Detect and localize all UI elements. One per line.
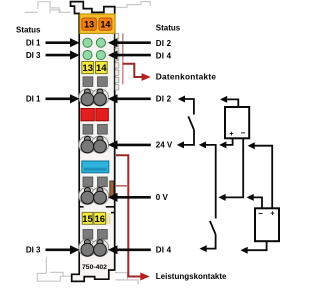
svg-text:DI 1: DI 1 [26,39,41,48]
svg-text:750-402: 750-402 [82,264,107,271]
svg-text:DI 2: DI 2 [156,95,172,104]
svg-text:DI 1: DI 1 [26,95,41,104]
svg-text:+: + [270,210,274,217]
svg-text:DI 4: DI 4 [156,246,172,255]
svg-text:Status: Status [16,25,41,34]
svg-text:14: 14 [100,20,110,30]
svg-text:−: − [258,209,263,218]
svg-text:+: + [229,131,233,138]
svg-text:13: 13 [84,20,94,30]
svg-text:24 V: 24 V [156,141,173,150]
svg-text:15: 15 [82,214,93,225]
svg-text:DI 3: DI 3 [26,246,41,255]
svg-text:Datenkontakte: Datenkontakte [156,72,217,82]
svg-text:DI 2: DI 2 [156,39,172,48]
svg-text:Status: Status [156,23,181,32]
svg-text:Leistungskontakte: Leistungskontakte [156,272,227,281]
svg-text:13: 13 [82,63,93,74]
svg-text:16: 16 [95,214,106,225]
svg-text:DI 3: DI 3 [26,51,41,60]
svg-text:−: − [241,129,246,138]
svg-text:14: 14 [96,63,107,74]
svg-text:0 V: 0 V [156,193,169,202]
svg-text:DI 4: DI 4 [156,51,172,60]
